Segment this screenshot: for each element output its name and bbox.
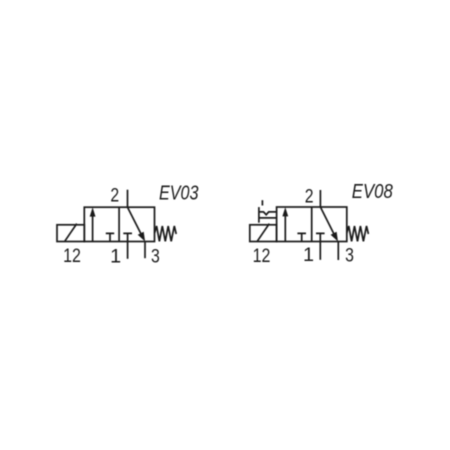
- valve EV08 port 1 line: [319, 242, 321, 260]
- valve EV03 solenoid actuator box: [57, 225, 84, 242]
- valve EV03 port 3 line: [144, 242, 146, 259]
- valve EV03 body (two-position 3/2 envelope): [84, 207, 154, 241]
- valve EV08 manual override stem: [261, 200, 263, 205]
- valve EV03 position divider: [118, 207, 120, 241]
- valve EV08 flow path 1-2 (up arrow, actuated box): [282, 207, 288, 241]
- valve EV03 flow path 1-2 (up arrow, actuated box): [90, 207, 96, 241]
- valve EV03 port 1 line: [127, 242, 129, 259]
- valve EV08 solenoid actuator box: [250, 225, 277, 242]
- valve EV03 flow path 2-3 (diagonal arrow): [128, 207, 146, 241]
- valve EV03 blocked port (left box T): [106, 233, 114, 241]
- valve EV08 position divider: [311, 207, 313, 242]
- valve EV08 port 3 line: [337, 242, 339, 261]
- valve EV08 blocked port (left box T): [297, 233, 306, 241]
- valve EV08 flow path 2-3 (diagonal arrow): [320, 207, 338, 242]
- valve EV08 solenoid diagonal: [257, 224, 269, 242]
- svg-text:3: 3: [345, 244, 354, 266]
- valve EV08 manual override bottom line: [259, 217, 277, 219]
- valve EV08 port 2 line: [319, 190, 321, 207]
- svg-text:12: 12: [253, 245, 271, 267]
- valve EV08 blocked port 1 (right box T): [316, 233, 325, 241]
- valve EV03 port 2 line: [127, 190, 129, 208]
- svg-text:2: 2: [110, 185, 119, 207]
- valve EV03 return spring: [155, 226, 177, 241]
- valve EV08 body (two-position 3/2 envelope): [277, 207, 347, 242]
- svg-text:1: 1: [303, 244, 314, 266]
- svg-text:12: 12: [63, 245, 81, 267]
- valve EV03 solenoid diagonal: [65, 224, 77, 242]
- svg-text:2: 2: [305, 186, 314, 208]
- svg-text:EV08: EV08: [352, 181, 394, 203]
- valve EV03 blocked port 1 (right box T): [123, 233, 132, 241]
- svg-text:EV03: EV03: [159, 182, 199, 204]
- svg-text:1: 1: [110, 245, 121, 267]
- valve EV08 return spring: [347, 226, 369, 241]
- valve EV08 manual override left bar: [258, 207, 260, 223]
- valve EV08 manual override notched top line: [259, 212, 277, 215]
- svg-text:3: 3: [151, 245, 160, 267]
